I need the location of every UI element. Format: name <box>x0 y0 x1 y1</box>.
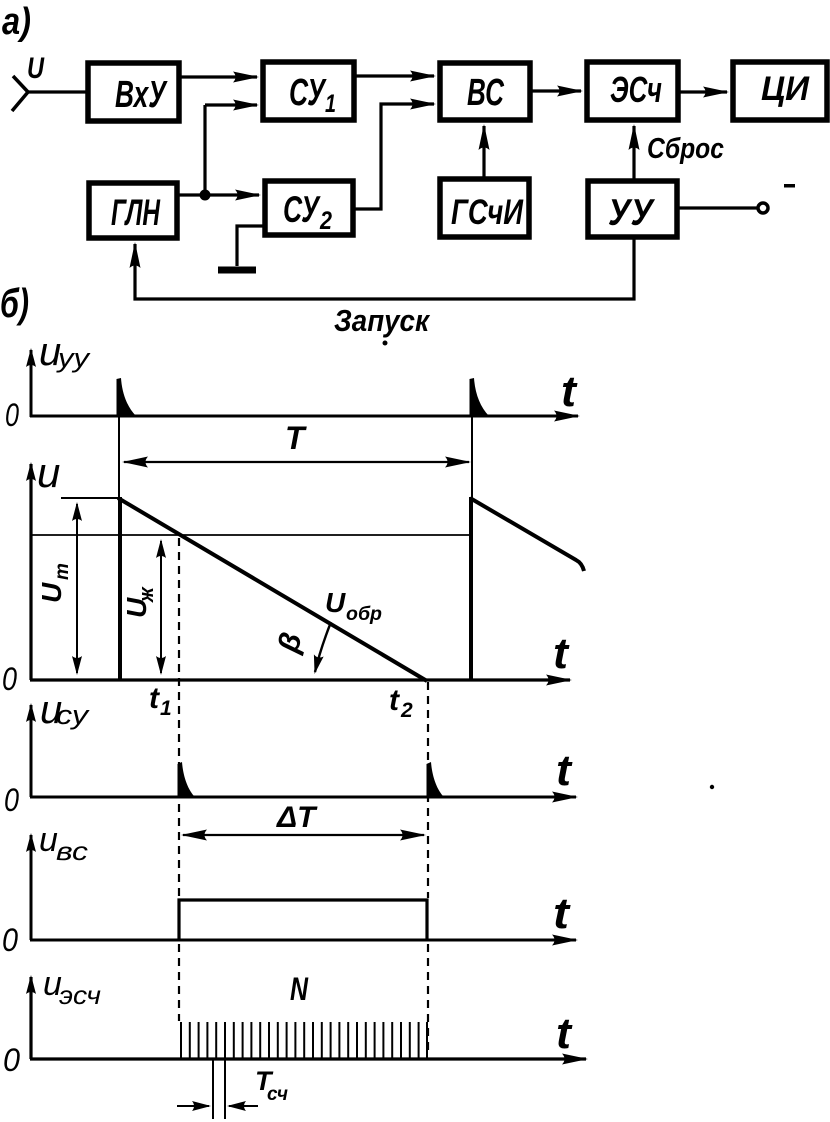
svg-text:уу: уу <box>56 343 91 373</box>
svg-text:Запуск: Запуск <box>334 303 430 338</box>
svg-text:t: t <box>553 889 572 938</box>
svg-text:обр: обр <box>346 604 382 625</box>
svg-text:сч: сч <box>267 1084 288 1105</box>
svg-text:1: 1 <box>325 90 336 118</box>
svg-text:а): а) <box>2 1 31 43</box>
svg-text:УУ: УУ <box>608 192 656 233</box>
svg-text:0: 0 <box>2 922 18 958</box>
svg-text:ВхУ: ВхУ <box>115 74 168 116</box>
svg-text:m: m <box>52 563 73 580</box>
svg-text:t: t <box>561 367 578 416</box>
svg-text:ГСчИ: ГСчИ <box>451 193 524 232</box>
svg-text:N: N <box>290 971 309 1007</box>
svg-text:T: T <box>285 420 307 456</box>
svg-text:t: t <box>556 746 573 795</box>
svg-text:вс: вс <box>56 836 88 866</box>
svg-text:ΔT: ΔT <box>276 801 318 834</box>
svg-text:t: t <box>389 684 401 717</box>
svg-text:СУ: СУ <box>283 189 321 230</box>
svg-text:0: 0 <box>5 397 19 433</box>
svg-text:U: U <box>325 587 346 618</box>
svg-text:ГЛН: ГЛН <box>111 192 161 233</box>
svg-text:0: 0 <box>4 782 19 818</box>
svg-text:1: 1 <box>160 697 172 720</box>
svg-text:t: t <box>553 629 570 678</box>
svg-text:0: 0 <box>2 661 17 697</box>
svg-text:2: 2 <box>400 699 413 722</box>
svg-text:u: u <box>37 449 60 496</box>
svg-text:эсч: эсч <box>59 980 101 1010</box>
svg-text:СУ: СУ <box>289 72 327 114</box>
svg-text:ЭСч: ЭСч <box>610 69 662 110</box>
svg-text:t: t <box>556 1009 573 1058</box>
svg-text:ж: ж <box>136 586 158 603</box>
svg-text:ЦИ: ЦИ <box>761 70 810 108</box>
svg-text:β: β <box>272 629 309 656</box>
svg-text:2: 2 <box>319 207 332 235</box>
svg-text:б): б) <box>0 280 29 326</box>
svg-text:0: 0 <box>3 1042 20 1078</box>
svg-text:су: су <box>56 700 90 730</box>
svg-text:U: U <box>27 52 45 85</box>
svg-text:Сброс: Сброс <box>647 133 724 165</box>
svg-text:ВС: ВС <box>467 72 504 114</box>
svg-text:U: U <box>36 582 67 603</box>
